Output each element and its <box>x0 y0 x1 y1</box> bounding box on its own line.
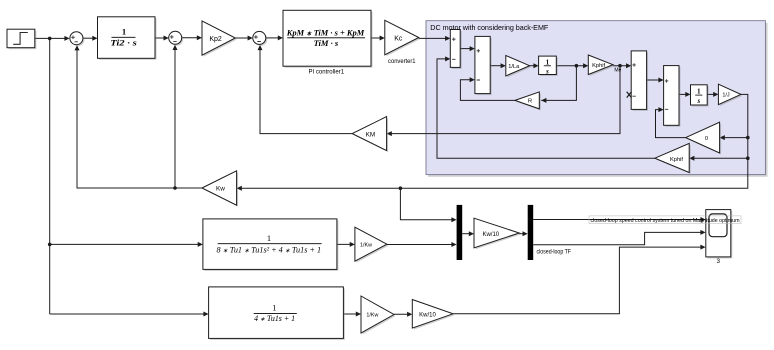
arrowhead into gain Kw/10 bottom <box>407 312 412 317</box>
arrowhead into gain 1/Kw mid <box>350 242 355 247</box>
svg-text:R: R <box>528 99 532 105</box>
arrowhead into gain Kc <box>380 36 385 41</box>
svg-text:KM: KM <box>366 131 376 138</box>
wire 1/Kw bottom to Kw/10 bottom <box>394 313 411 315</box>
wire PI to Kc <box>371 37 383 39</box>
svg-text:1/J: 1/J <box>722 93 730 99</box>
svg-text:s: s <box>696 98 700 105</box>
arrowhead into motor sum A minus <box>445 56 450 61</box>
signal name label: closed-loop speed control system tuned on Magnitude optimum <box>589 216 741 224</box>
arrowhead into sum S1 bottom <box>75 45 80 50</box>
motor sum A (armature voltage sum) <box>450 30 461 69</box>
integrator 1/s <box>539 56 558 76</box>
wire bottom TF to 1/Kw bottom <box>343 313 359 315</box>
wire Kw/10 to demux <box>519 233 526 235</box>
arrowhead into sum S1 <box>64 36 69 41</box>
svg-text:1: 1 <box>697 89 701 96</box>
arrowhead into gain R <box>541 98 546 103</box>
junction speed line to mux <box>399 186 403 190</box>
arrowhead into scope input1 <box>700 217 705 222</box>
motor sum B <box>475 36 492 95</box>
gain R (left pointing) <box>515 92 541 111</box>
gain Kphif (torque constant) with Me label <box>588 55 621 76</box>
wire step branch down <box>49 38 51 314</box>
wire demux out1 to scope in1 <box>533 219 704 221</box>
wire Kc to motor sum A <box>419 37 449 39</box>
svg-text:1/Kw: 1/Kw <box>366 313 378 319</box>
PI controller1 block <box>283 10 373 75</box>
junction after integrator 1/s <box>575 64 579 68</box>
arrowhead into gain Kw/10 mid <box>469 231 474 236</box>
transfer function bottom: 1/(4 Tu1s+1) <box>209 287 345 340</box>
svg-text:1: 1 <box>546 59 550 66</box>
wire sum1 to TF1 <box>83 37 96 39</box>
wire Kp2 to sum3 <box>235 37 251 39</box>
svg-text:closed-loop TF: closed-loop TF <box>537 249 572 256</box>
gain Kc converter1 <box>385 20 421 65</box>
gain Kphif2 (back-EMF, left pointing) <box>655 143 691 174</box>
integrator2 1/s <box>691 85 709 107</box>
wire 1/s to Kphif <box>556 65 586 67</box>
wire 1/J output down right rail <box>238 94 747 188</box>
motor sum C <box>664 66 681 127</box>
gain Kw/10 bottom <box>412 300 454 330</box>
arrowhead into sum S3 bottom <box>258 45 263 50</box>
arrowhead into bottom TF <box>203 312 208 317</box>
wire speed branch down to mux1 input1 <box>400 188 454 220</box>
junction rail to Kphif2 <box>746 156 750 160</box>
svg-text:3: 3 <box>717 258 721 265</box>
subsystem highlight area: DC motor with considering back-EMF <box>426 21 768 177</box>
svg-text:1: 1 <box>272 303 276 312</box>
demux bar closed-loop TF <box>528 205 571 260</box>
svg-text:1/La: 1/La <box>508 64 520 70</box>
wire sumB to 1/La <box>490 65 504 67</box>
svg-text:DC motor with considering back: DC motor with considering back-EMF <box>430 23 549 32</box>
junction step branch mid <box>48 243 52 247</box>
mux1 bar <box>457 205 463 260</box>
arrowhead into integrator2 <box>685 92 690 97</box>
wire branch to sum2 bottom <box>174 47 176 189</box>
svg-text:1: 1 <box>122 26 126 36</box>
arrowhead into gain 1/J <box>713 92 718 97</box>
svg-text:Kw/10: Kw/10 <box>419 312 436 318</box>
gain Kw/10 mid <box>474 218 521 249</box>
arrowhead into gain KM <box>387 131 392 136</box>
transfer function mid: 1/(8 Tu1 Tu1s^2+4 Tu1s+1) <box>203 219 339 271</box>
scope block 3 <box>706 210 733 266</box>
arrowhead into motor sum B minus <box>470 77 475 82</box>
wire step to sum1 <box>35 37 68 39</box>
wire 0-gain to sumC minus <box>656 110 686 138</box>
wire 1/La to integrator 1/s <box>530 65 537 67</box>
junction after Kphif Me <box>618 64 622 68</box>
wire Kw to sum1 bottom <box>77 47 202 188</box>
svg-text:Kp2: Kp2 <box>209 36 222 43</box>
wire rail to 0-gain input <box>721 137 747 139</box>
arrowhead into sum S2 bottom <box>173 45 178 50</box>
svg-text:Kw: Kw <box>216 185 225 192</box>
svg-text:converter1: converter1 <box>388 58 416 65</box>
svg-text:0: 0 <box>705 136 708 142</box>
gain 1/J <box>718 84 742 106</box>
svg-text:8 ∗ Tu1 ∗ Tu1s² + 4 ∗ Tu1s + 1: 8 ∗ Tu1 ∗ Tu1s² + 4 ∗ Tu1s + 1 <box>217 245 322 254</box>
sum circle S2 <box>169 31 184 46</box>
wire KM to sum3 bottom <box>260 47 352 134</box>
arrowhead into mid TF <box>198 242 203 247</box>
arrowhead into gain 1/Kw bottom <box>356 312 361 317</box>
wire sum2 to Kp2 <box>182 37 201 39</box>
arrowhead into motor sum A plus <box>445 36 450 41</box>
wire mid TF to 1/Kw <box>337 243 353 245</box>
arrowhead into gain Kp2 <box>197 35 202 40</box>
arrowhead into sum S3 <box>248 36 253 41</box>
wire mux1 to Kw/10 <box>462 233 472 235</box>
wire 1/Kw mid to mux1 input2 <box>387 244 455 246</box>
wire branch down to R gain <box>541 66 576 101</box>
arrowhead into gain 1/La <box>501 63 506 68</box>
svg-text:KpM ∗ TiM · s + KpM: KpM ∗ TiM · s + KpM <box>286 28 365 38</box>
wire branch down-left to KM <box>388 66 620 134</box>
wire demux out2 to scope in2 <box>533 232 704 244</box>
sum circle S3 <box>253 31 268 46</box>
junction Kw line sum2 branch <box>173 186 177 190</box>
arrowhead into TF1 <box>92 36 97 41</box>
arrowhead into integrator 1/s <box>533 63 538 68</box>
wire R feedback to sumB minus <box>460 80 515 101</box>
sum circle S1 <box>70 32 85 47</box>
transfer function 1/(Ti2 s) <box>98 17 157 60</box>
arrowhead into demux <box>523 231 528 236</box>
arrowhead into scope input2 <box>700 230 705 235</box>
torque sum block with unconnected port <box>627 51 648 111</box>
wire rail to Kphif2 input <box>691 157 748 159</box>
wire torque block to sumC <box>647 79 662 81</box>
arrowhead into motor sum B plus <box>470 46 475 51</box>
svg-text:TiM · s: TiM · s <box>314 38 339 48</box>
svg-text:Kw/10: Kw/10 <box>482 232 499 238</box>
arrowhead into motor sum C plus <box>658 78 663 83</box>
wire branch to bottom TF <box>50 313 207 315</box>
arrowhead into sum S2 <box>164 36 169 41</box>
wire Kphif to torque block <box>613 65 629 67</box>
svg-text:1/Kw: 1/Kw <box>360 242 372 248</box>
arrowhead into mux1 input1 <box>451 217 456 222</box>
arrowhead into gain 0 <box>720 135 725 140</box>
arrowhead into torque sum <box>626 63 631 68</box>
arrowhead into gain Kphif <box>583 63 588 68</box>
gain Kw (left pointing) <box>202 171 238 207</box>
svg-text:4 ∗ Tu1s + 1: 4 ∗ Tu1s + 1 <box>254 314 295 323</box>
arrowhead into gain Kw <box>237 186 242 191</box>
wire motor sumA to sumB <box>460 48 473 50</box>
arrowhead into gain Kphif2 <box>689 156 694 161</box>
svg-text:Kphif: Kphif <box>592 63 605 69</box>
arrowhead into PI controller1 <box>278 35 283 40</box>
wire Kw/10 bottom up to scope in3 <box>453 247 704 314</box>
svg-text:PI controller1: PI controller1 <box>309 68 345 75</box>
gain 1/Kw bottom <box>361 296 396 335</box>
gain KM (left pointing) <box>352 117 388 153</box>
wire TF1 to sum2 <box>155 37 167 39</box>
gain 0 (left pointing) <box>686 122 721 154</box>
arrowhead into scope input3 <box>700 245 705 250</box>
arrowhead into motor sum C minus <box>658 107 663 112</box>
gain 1/La <box>506 56 531 78</box>
svg-text:Kphif: Kphif <box>670 157 683 163</box>
wire branch to mid TF <box>50 243 201 245</box>
svg-text:Kc: Kc <box>394 36 403 43</box>
step source block <box>7 29 36 49</box>
svg-text:closed-loop speed control syst: closed-loop speed control system tuned o… <box>591 218 740 224</box>
wire sumC to integrator2 <box>679 93 689 95</box>
gain 1/Kw mid <box>355 227 389 263</box>
gain Kp2 <box>202 21 237 57</box>
wire sum3 to PI controller <box>266 37 281 39</box>
svg-text:Me: Me <box>614 67 621 73</box>
arrowhead into mux1 input2 <box>451 242 456 247</box>
svg-text:Ti2 · s: Ti2 · s <box>110 38 137 48</box>
svg-text:s: s <box>545 68 549 75</box>
junction rail to 0-gain <box>746 136 750 140</box>
junction after step <box>48 37 52 41</box>
wire Kphif feedback to motor sum A minus <box>437 59 655 158</box>
svg-text:1: 1 <box>267 234 271 243</box>
wire integrator2 to 1/J <box>707 93 716 95</box>
